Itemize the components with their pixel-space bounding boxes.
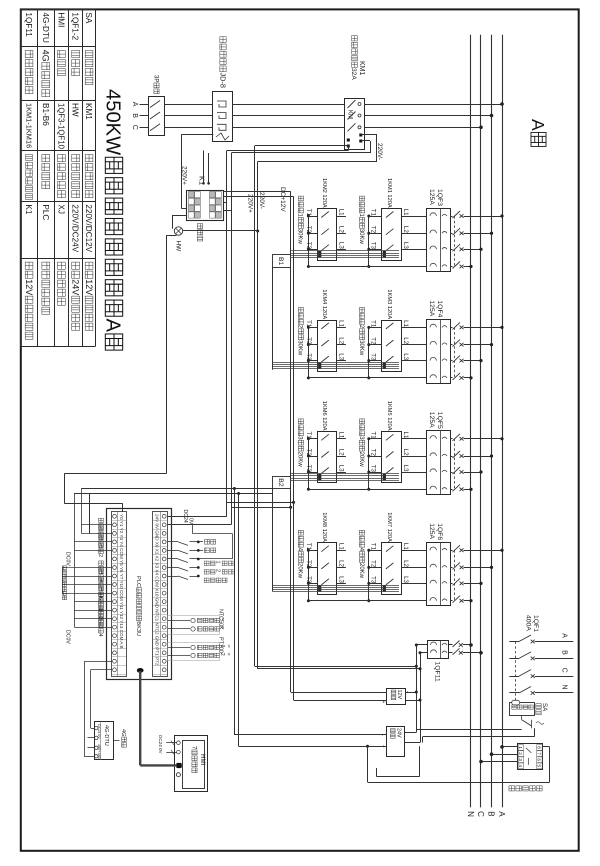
table cell 小型断路器 — [25, 51, 33, 58]
PLC DC24 supply wires right — [167, 516, 227, 518]
svg-text:L1: L1 — [402, 209, 409, 216]
svg-text:L3: L3 — [337, 353, 344, 360]
svg-text:HW: HW — [71, 103, 80, 117]
svg-text:2: 2 — [219, 653, 225, 656]
svg-text:1QF11: 1QF11 — [24, 12, 33, 37]
svg-text:L3: L3 — [402, 576, 409, 583]
svg-text:T1: T1 — [369, 320, 376, 328]
svg-text:30Kw: 30Kw — [358, 229, 364, 245]
svg-text:SA: SA — [84, 12, 93, 23]
svg-text:L2: L2 — [402, 560, 409, 567]
wire lamp to 220V- rail — [183, 230, 258, 232]
pump protector JD-8 box — [213, 92, 233, 142]
svg-text:1QF3: 1QF3 — [436, 189, 443, 206]
wire PLC input 档位5 — [74, 584, 111, 586]
heater group 1 feeder links — [308, 216, 310, 267]
svg-text:T3: T3 — [369, 576, 376, 584]
wire PLC input 档位1 — [74, 541, 111, 543]
svg-text:20Kw: 20Kw — [358, 452, 364, 468]
power supply 12V box — [387, 689, 406, 705]
svg-text:24V 0V GND X0 X1 X2 X3 X4 COM: 24V 0V GND X0 X1 X2 X3 X4 COM X10 GND NT… — [155, 514, 160, 666]
svg-text:XJ: XJ — [56, 204, 65, 214]
emergency stop SA — [510, 703, 535, 716]
svg-text:L1: L1 — [402, 432, 409, 439]
wire PLC input 加热组1 — [74, 601, 111, 603]
svg-text:KM: KM — [346, 110, 352, 119]
wire PLC input 加热组4 — [74, 627, 111, 629]
svg-text:B: B — [131, 113, 138, 118]
svg-text:SA: SA — [541, 703, 548, 712]
svg-text:1KM1-1KM16: 1KM1-1KM16 — [24, 103, 33, 148]
svg-text:1KM6 120A: 1KM6 120A — [321, 401, 327, 431]
svg-text:12V: 12V — [396, 690, 402, 700]
sensor PT100 inputs — [167, 647, 190, 649]
HMI 7 inch touch screen — [175, 736, 208, 792]
wire K1 to DC12V rails — [224, 191, 291, 193]
svg-text:6: 6 — [537, 758, 542, 761]
svg-text:12V: 12V — [24, 279, 34, 295]
svg-text:HMI: HMI — [56, 12, 65, 27]
rails to 24V supply pair — [233, 487, 236, 490]
svg-text:20Kw: 20Kw — [297, 452, 303, 468]
svg-text:A: A — [497, 811, 506, 817]
svg-text:4G: 4G — [41, 50, 51, 62]
svg-text:DC24: DC24 — [158, 735, 163, 747]
KM1 coil terminals — [347, 139, 350, 142]
rail DC+12V pair vertical — [290, 192, 292, 693]
table cell 相序保护器 — [57, 262, 65, 269]
wire PLC input 档位6 — [74, 593, 111, 595]
relay 1KM4 magnetic latching 120A — [318, 321, 337, 372]
svg-text:KM1: KM1 — [84, 103, 93, 120]
heater group 3 feeder links — [308, 439, 310, 490]
svg-text:4: 4 — [518, 765, 523, 768]
svg-text:2: 2 — [97, 554, 103, 557]
relay 1KM2 magnetic latching 120A — [318, 209, 337, 261]
svg-text:T2: T2 — [369, 560, 376, 568]
dashed trip link 1QF5 — [454, 439, 456, 490]
wires 12V box — [406, 692, 417, 694]
contactor KM1 box — [345, 99, 365, 150]
table cell 加热档位 — [42, 155, 50, 162]
relay 1KM8 magnetic latching 120A — [318, 543, 337, 595]
svg-text:L1: L1 — [402, 320, 409, 327]
wires 24V box — [405, 732, 416, 734]
svg-text:125A: 125A — [428, 523, 435, 539]
dashed trip link 1QF4 — [454, 327, 456, 378]
wire PLC input 加热组2 — [74, 610, 111, 612]
table cell 急停按钮 — [85, 51, 93, 58]
svg-text:T3: T3 — [305, 242, 312, 250]
svg-text:125A: 125A — [428, 412, 435, 428]
svg-text:30Kw: 30Kw — [297, 229, 303, 245]
svg-text:C: C — [476, 811, 485, 817]
wires buses to XJ — [502, 746, 517, 748]
dashed trip link 1QF6 — [454, 550, 456, 601]
svg-text:1QF3-1QF10: 1QF3-1QF10 — [57, 103, 66, 150]
bus N vertical — [470, 35, 472, 808]
wire B1 to group2 bundle — [272, 268, 274, 370]
svg-text:N: N — [466, 811, 475, 817]
breaker 1QF6 125A — [427, 543, 451, 606]
svg-text:20Kw: 20Kw — [297, 563, 303, 579]
svg-text:B1-B6: B1-B6 — [41, 103, 50, 126]
svg-text:HW: HW — [175, 241, 182, 253]
svg-text:T1: T1 — [369, 209, 376, 217]
svg-text:0V: 0V — [188, 518, 194, 525]
HMI comm port — [176, 763, 182, 768]
svg-text:B: B — [560, 650, 567, 655]
table cell 交流接触器 — [85, 155, 93, 162]
svg-text:2: 2 — [518, 752, 523, 755]
wires 1QF11 to 220V rails down — [416, 644, 427, 646]
svg-text:HMI: HMI — [199, 754, 206, 766]
wire 220V rails connect horizontal — [255, 666, 416, 668]
svg-text:3P: 3P — [152, 75, 158, 82]
svg-text:20Kw: 20Kw — [358, 563, 364, 579]
wire phase stubs to 3P breaker — [140, 104, 149, 106]
svg-text:T2: T2 — [369, 226, 376, 234]
svg-text:K1: K1 — [197, 176, 206, 185]
svg-text:T2: T2 — [369, 449, 376, 457]
node B2 — [273, 477, 291, 489]
svg-text:400A: 400A — [525, 615, 532, 631]
breaker 1QF11 2P — [428, 641, 449, 659]
table cell 漏电断路器 — [57, 155, 65, 162]
svg-text:A: A — [560, 633, 567, 638]
relay 1KM6 magnetic latching 120A — [318, 432, 337, 483]
table cell 直流12V中间继电器 — [25, 262, 33, 269]
svg-text:24V: 24V — [395, 728, 401, 738]
bus C vertical — [480, 35, 482, 808]
wire DC0V long pair to B2 rails — [81, 488, 272, 490]
svg-text:L1: L1 — [402, 543, 409, 550]
svg-text:L2: L2 — [337, 560, 344, 567]
table cell 直流24V开关电源 — [72, 262, 80, 269]
svg-text:L2: L2 — [402, 449, 409, 456]
svg-text:T1: T1 — [305, 543, 312, 551]
svg-text:DC24: DC24 — [182, 510, 188, 523]
wire 24V+ down to bottom run — [366, 745, 369, 748]
svg-text:Y0 Y1 Y2 Y3 Y4 COM Y5 Y6 Y7 Y1: Y0 Y1 Y2 Y3 Y4 COM Y5 Y6 Y7 Y10 COM Y11 … — [119, 514, 124, 649]
svg-text:5: 5 — [537, 765, 542, 768]
table cell 磁保持继电器 — [26, 154, 33, 160]
svg-text:1KM7 120A: 1KM7 120A — [386, 512, 392, 542]
wire neutral row group 2 — [308, 377, 427, 379]
svg-text:A: A — [102, 319, 124, 333]
wire control bundle group 4 — [273, 585, 399, 587]
rail 220V- vertical — [257, 162, 259, 669]
svg-text:T3: T3 — [369, 242, 376, 250]
svg-text:C: C — [131, 125, 138, 130]
wire phases 3P to JD-8 — [165, 104, 213, 106]
svg-text:30Kw: 30Kw — [297, 340, 303, 356]
svg-text:DC0V: DC0V — [65, 630, 71, 644]
dashed trip link 1QF3 — [454, 216, 456, 267]
relay 1KM1 magnetic latching 120A — [382, 209, 402, 261]
svg-text:T3: T3 — [305, 465, 312, 473]
svg-text:220V/DC24V: 220V/DC24V — [71, 204, 80, 252]
svg-text:T2: T2 — [305, 560, 312, 568]
svg-text:1: 1 — [215, 561, 221, 564]
wire control bundle group 2 — [273, 362, 399, 364]
svg-text:1KM4 120A: 1KM4 120A — [321, 289, 327, 319]
svg-text:1KM1 120A: 1KM1 120A — [386, 178, 392, 208]
svg-text:1: 1 — [518, 746, 523, 749]
table cell 触摸屏 — [57, 51, 65, 58]
svg-text:1KM2 120A: 1KM2 120A — [321, 178, 327, 208]
wire phases JD-8 to KM1 — [232, 104, 345, 106]
table cell 绿色指示灯 — [72, 155, 80, 162]
svg-text:N: N — [560, 685, 567, 690]
svg-text:L2: L2 — [337, 226, 344, 233]
table cell 断路器 — [72, 51, 80, 58]
svg-text:1KM5 120A: 1KM5 120A — [386, 401, 392, 431]
svg-text:1QF1: 1QF1 — [532, 615, 539, 632]
svg-text:8: 8 — [537, 746, 542, 749]
svg-text:JD-8: JD-8 — [218, 73, 227, 88]
svg-text:L3: L3 — [337, 465, 344, 472]
wire PLC input 加热组3 — [74, 618, 111, 620]
svg-text:220V-: 220V- — [376, 143, 383, 160]
svg-text:1QF6: 1QF6 — [436, 523, 443, 540]
svg-text:450KW: 450KW — [102, 89, 124, 155]
svg-text:125A: 125A — [428, 189, 435, 205]
breaker 1QF5 125A — [427, 431, 451, 495]
heater group 2 feeder links — [308, 327, 310, 378]
svg-text:B1: B1 — [277, 257, 284, 266]
indicator lamp HW green — [174, 227, 182, 235]
svg-text:B: B — [487, 811, 496, 816]
svg-text:1QF1-2: 1QF1-2 — [71, 12, 80, 40]
svg-text:L2: L2 — [402, 226, 409, 233]
svg-text:PLC: PLC — [41, 204, 50, 220]
svg-text:L3: L3 — [337, 242, 344, 249]
wire control bundle group 1 — [291, 250, 399, 252]
wires 1QF11 to buses — [449, 644, 453, 646]
wire control bundle group 3 — [291, 473, 399, 475]
breaker 1QF3 125A — [427, 209, 451, 272]
svg-text:T3: T3 — [305, 353, 312, 361]
svg-text:0V: 0V — [158, 748, 163, 755]
svg-text:T1: T1 — [369, 543, 376, 551]
svg-text:T3: T3 — [369, 353, 376, 361]
svg-text:L2: L2 — [337, 337, 344, 344]
svg-text:1QF5: 1QF5 — [436, 412, 443, 429]
wire B2 to group4 bundle — [272, 489, 274, 592]
svg-text:T2: T2 — [305, 337, 312, 345]
svg-text:L2: L2 — [402, 337, 409, 344]
aux stubs far left — [62, 567, 74, 569]
PLC right switch inputs — [167, 541, 178, 543]
cable PLC to HMI thick comm line — [137, 668, 144, 673]
wire bottom run 776 — [376, 776, 419, 778]
wire K1 coil stubs up — [202, 182, 205, 185]
svg-text:A: A — [528, 119, 548, 131]
breaker 1QF4 125A — [427, 320, 451, 384]
wire lamp down to PLC top — [166, 235, 177, 237]
label 4G antenna — [113, 740, 119, 742]
svg-text:1QF4: 1QF4 — [436, 300, 443, 317]
SA contact — [521, 716, 523, 720]
svg-text:KM1: KM1 — [358, 61, 365, 76]
rail DC24 pair down — [226, 151, 228, 517]
svg-text:32A: 32A — [350, 68, 357, 80]
power supply 24V box — [387, 727, 405, 757]
svg-text:NTC50K: NTC50K — [218, 609, 224, 630]
svg-text:T2: T2 — [305, 449, 312, 457]
node B1 — [273, 255, 291, 268]
svg-text:K1: K1 — [24, 204, 33, 214]
table cell 可编程控制器 — [42, 262, 50, 269]
svg-text:T1: T1 — [305, 320, 312, 328]
svg-text:4: 4 — [97, 634, 103, 637]
rail 220V+ vertical — [254, 146, 256, 667]
table cell 直流12V开关电源 — [85, 262, 93, 269]
svg-text:3: 3 — [518, 758, 523, 761]
bus A vertical — [502, 35, 504, 808]
svg-text:L1: L1 — [337, 543, 344, 550]
svg-text:DC0V: DC0V — [65, 552, 71, 566]
svg-text:C: C — [560, 668, 567, 673]
relay 1KM3 magnetic latching 120A — [382, 321, 402, 372]
svg-text:L3: L3 — [402, 353, 409, 360]
svg-text:220V-: 220V- — [258, 192, 265, 209]
wire left rail water pump rows — [89, 494, 91, 534]
phase sequence protector XJ — [518, 744, 543, 770]
breaker 3P air switch box — [149, 97, 165, 136]
svg-text:24V: 24V — [70, 279, 80, 295]
wire phases KM1 to buses — [365, 104, 502, 106]
legend table — [20, 9, 22, 346]
svg-text:L1: L1 — [337, 432, 344, 439]
svg-text:T3: T3 — [305, 576, 312, 584]
svg-text:PLC: PLC — [135, 576, 141, 587]
relay 1KM7 magnetic latching 120A — [382, 543, 402, 595]
wire XJ pin8 loop — [543, 746, 550, 748]
wire PLC input 档位2 — [74, 550, 111, 552]
svg-text:30Kw: 30Kw — [358, 340, 364, 356]
svg-text:B2: B2 — [277, 478, 284, 487]
svg-text:≈: ≈ — [225, 645, 231, 648]
svg-text:PT100: PT100 — [218, 637, 224, 653]
svg-text:7: 7 — [537, 752, 542, 755]
svg-text:T2: T2 — [305, 226, 312, 234]
wire PLC input 水泵2 — [81, 533, 111, 535]
svg-text:T3: T3 — [369, 465, 376, 473]
wire neutral row group 4 — [308, 600, 427, 602]
svg-text:1KM8 120A: 1KM8 120A — [321, 512, 327, 542]
heater group 4 feeder links — [308, 550, 310, 601]
svg-text:L3: L3 — [402, 465, 409, 472]
svg-text:4G: 4G — [120, 729, 126, 736]
svg-text:L2: L2 — [337, 449, 344, 456]
relay 1KM5 magnetic latching 120A — [382, 432, 402, 483]
svg-text:≈: ≈ — [225, 653, 231, 656]
wire K1 right to DC rails — [224, 202, 227, 204]
wire PLC input 档位4 — [74, 576, 111, 578]
svg-text:4G-DTU: 4G-DTU — [103, 725, 109, 746]
wire neutral row group 3 — [308, 489, 427, 491]
svg-text:L1: L1 — [337, 209, 344, 216]
module 4G-DTU — [95, 722, 114, 760]
svg-text:L3: L3 — [402, 242, 409, 249]
wires 4G-DTU to PLC RS485 — [91, 669, 112, 671]
svg-text:L1: L1 — [337, 320, 344, 327]
wire DC24 rails to DC12V rails cross — [227, 502, 294, 504]
svg-text:T2: T2 — [369, 337, 376, 345]
wire PLC input 档位3 — [74, 567, 111, 569]
svg-text:BK3U: BK3U — [135, 621, 141, 636]
switch collector wires — [192, 525, 194, 534]
svg-text:L3: L3 — [337, 576, 344, 583]
wire JD-8 down to K1 220V+ — [181, 134, 213, 136]
svg-text:125A: 125A — [428, 300, 435, 316]
svg-text:T1: T1 — [305, 209, 312, 217]
svg-text:12V: 12V — [84, 279, 94, 295]
svg-text:2: 2 — [215, 569, 221, 572]
wire PLC input 水泵1 — [81, 524, 111, 526]
svg-text:A: A — [131, 102, 138, 107]
dashed link 1QF1 — [515, 642, 517, 701]
sensor NTC50K inputs — [167, 620, 190, 622]
svg-text:DC+12V: DC+12V — [279, 187, 286, 212]
svg-text:1KM3 120A: 1KM3 120A — [386, 289, 392, 319]
wires SA to 24V rail — [417, 729, 522, 731]
wire neutral row group 1 — [308, 266, 427, 268]
PLC programmable controller BK3U — [107, 509, 172, 680]
svg-text:1QF11: 1QF11 — [433, 662, 440, 682]
svg-text:4G-DTU: 4G-DTU — [41, 12, 50, 43]
wire KM1 coil to rails — [361, 134, 377, 136]
bus B vertical — [491, 35, 493, 808]
svg-text:220V/DC12V: 220V/DC12V — [84, 204, 93, 252]
